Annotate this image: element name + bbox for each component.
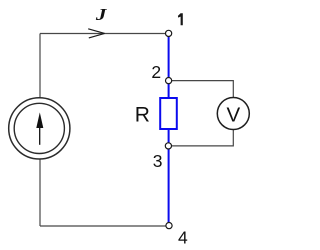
current source internal arrow: [39, 124, 41, 145]
node 2 (open terminal): [166, 78, 172, 84]
current source J (double circle): [9, 98, 70, 159]
svg-text:3: 3: [153, 151, 163, 171]
wire: voltmeter top branch from node 2: [172, 81, 234, 98]
svg-text:4: 4: [178, 228, 188, 248]
svg-text:V: V: [227, 103, 241, 126]
svg-text:J: J: [95, 5, 107, 24]
node 4 (open terminal): [166, 223, 172, 229]
wire: bottom horizontal to node 4: [40, 225, 166, 227]
svg-text:2: 2: [151, 62, 161, 82]
wire: top horizontal from current source to node 1: [40, 33, 166, 35]
wire: voltmeter bottom branch to node 3: [172, 130, 234, 146]
node 1 (open terminal): [166, 30, 172, 36]
svg-text:R: R: [135, 104, 150, 127]
wire: left vertical lower (source bottom to bottom loop): [39, 159, 41, 226]
wire: left vertical upper (node 1 loop to source top): [39, 34, 41, 98]
current direction arrowhead on top wire: [88, 29, 104, 34]
voltmeter V (circle): [217, 98, 249, 130]
wire: blue branch node 1 to node 2: [168, 37, 170, 78]
wire: blue branch resistor bottom to node 3: [168, 129, 170, 143]
wire: blue branch node 2 to resistor top: [168, 84, 170, 99]
wire: blue branch node 3 to node 4: [168, 149, 170, 223]
node 1 label: [178, 13, 183, 25]
resistor R (body): [160, 98, 177, 129]
node 3 (open terminal): [165, 143, 171, 149]
